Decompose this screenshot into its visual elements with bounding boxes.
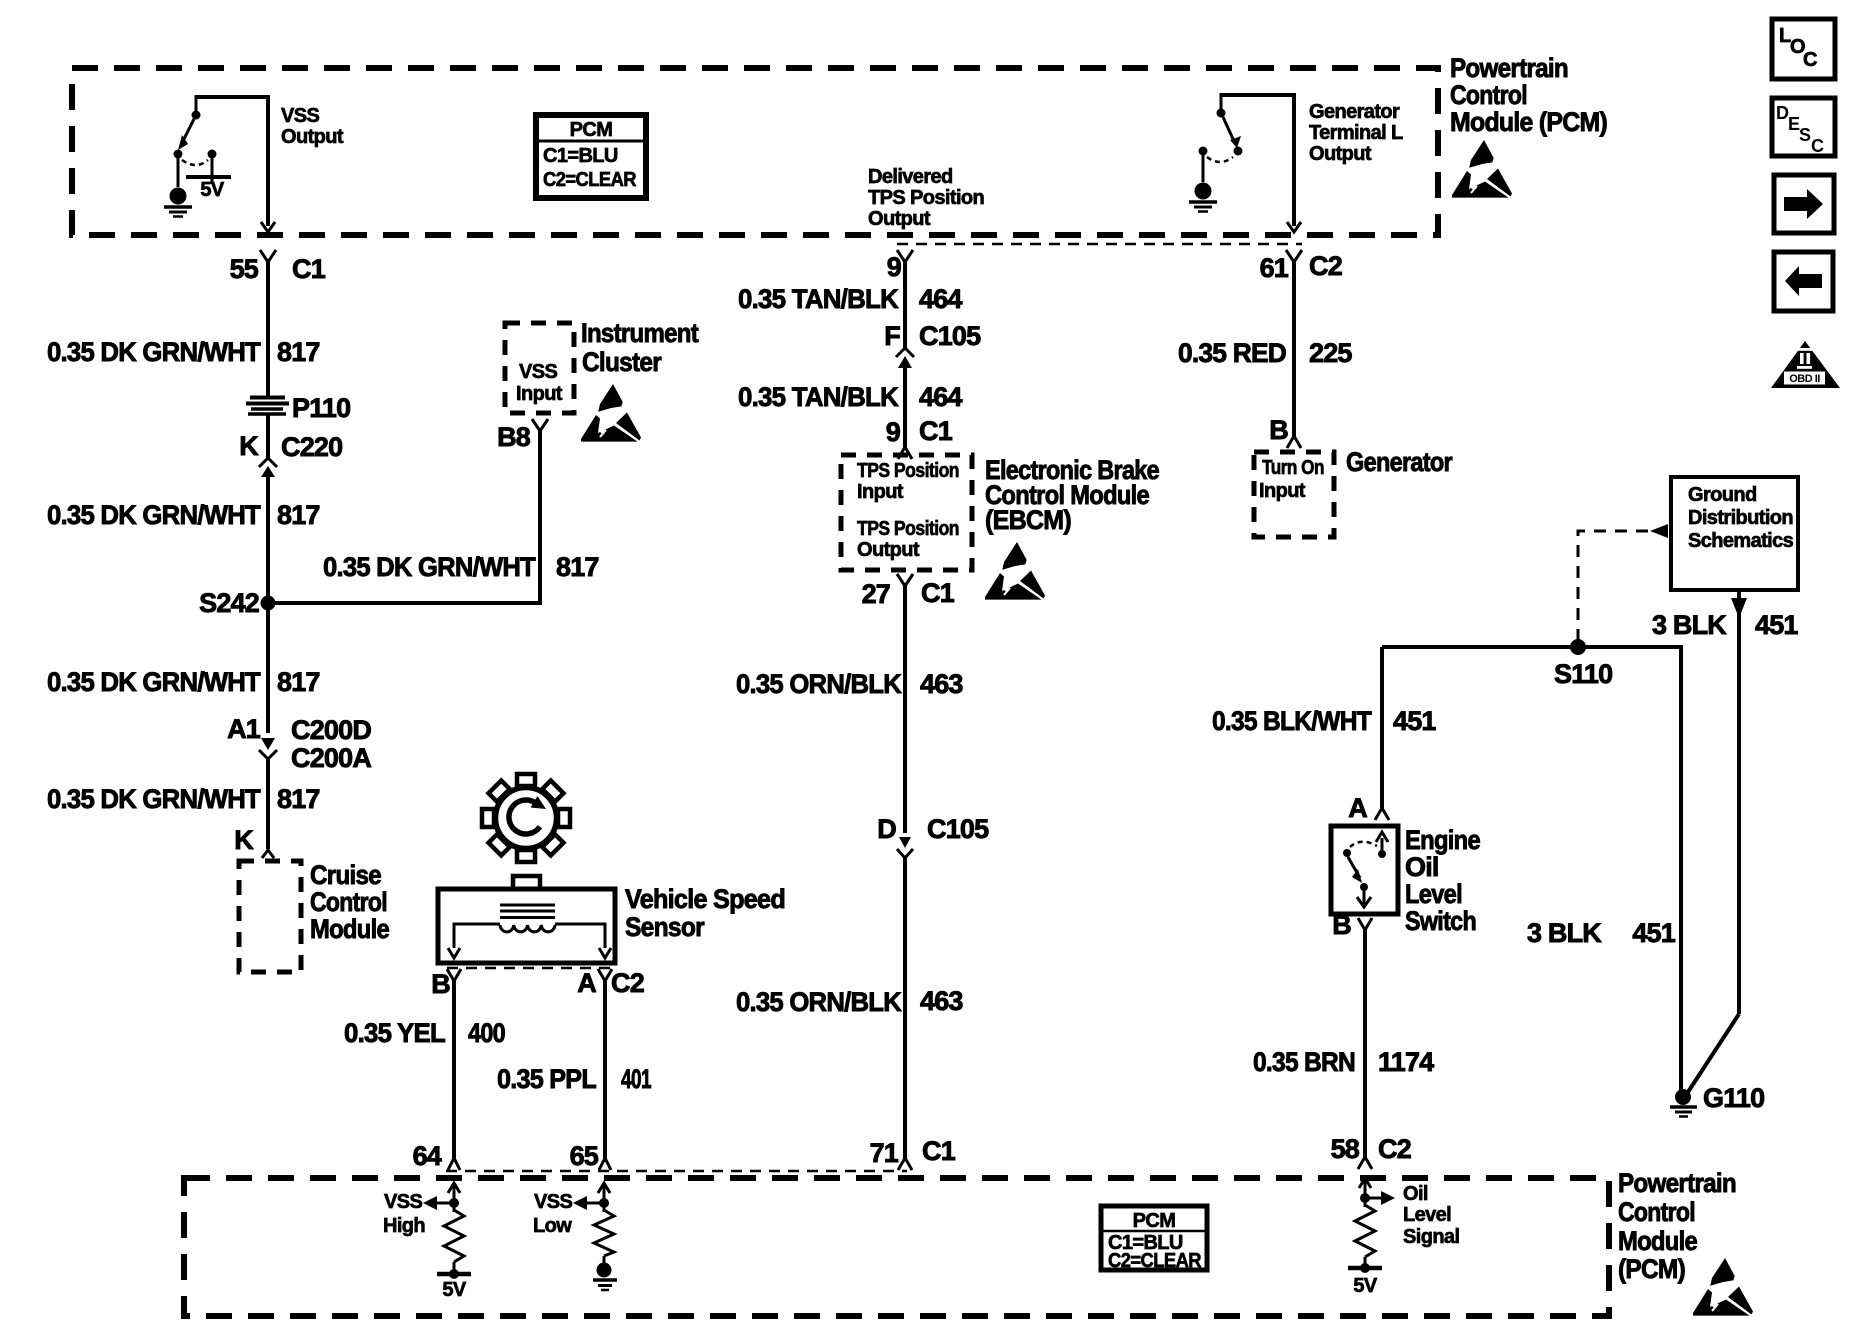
svg-text:817: 817 bbox=[277, 500, 320, 530]
svg-text:Control: Control bbox=[1450, 80, 1527, 110]
svg-text:0.35 ORN/BLK: 0.35 ORN/BLK bbox=[736, 669, 902, 699]
dashed reference line S110 to schematics box bbox=[1578, 524, 1668, 641]
svg-text:C2: C2 bbox=[1378, 1134, 1411, 1164]
VSS reluctor gear icon bbox=[482, 774, 570, 862]
svg-text:A: A bbox=[1348, 793, 1367, 823]
svg-text:Distribution: Distribution bbox=[1688, 507, 1793, 529]
svg-text:F: F bbox=[884, 321, 900, 351]
svg-text:TPS Position: TPS Position bbox=[868, 187, 984, 209]
svg-text:Schematics: Schematics bbox=[1688, 530, 1794, 552]
svg-text:B: B bbox=[431, 969, 450, 999]
svg-text:817: 817 bbox=[277, 667, 320, 697]
svg-text:VSS: VSS bbox=[519, 361, 557, 383]
svg-text:PCM: PCM bbox=[570, 119, 613, 141]
svg-text:Control: Control bbox=[310, 887, 387, 917]
Turn On Input dashed box bbox=[1254, 452, 1334, 537]
svg-text:5V: 5V bbox=[200, 179, 225, 201]
svg-text:Control: Control bbox=[1618, 1197, 1695, 1227]
wire 464 segment 1 bbox=[903, 262, 907, 349]
svg-text:TPS Position: TPS Position bbox=[857, 460, 959, 482]
svg-text:TPS Position: TPS Position bbox=[857, 518, 959, 540]
svg-text:C2: C2 bbox=[611, 968, 644, 998]
label VSS Input bbox=[516, 361, 563, 405]
svg-text:C200A: C200A bbox=[291, 743, 371, 773]
svg-text:C105: C105 bbox=[919, 321, 981, 351]
label 3 BLK 451 (lower) bbox=[1527, 918, 1676, 948]
label VSS Low bbox=[533, 1191, 572, 1237]
svg-text:D: D bbox=[877, 814, 896, 844]
svg-text:61: 61 bbox=[1260, 253, 1289, 283]
connector B8 bbox=[497, 419, 548, 452]
label Instrument Cluster bbox=[581, 318, 699, 377]
label 0.35 RED 225 bbox=[1178, 338, 1352, 368]
connector B (VSS) bbox=[431, 969, 461, 999]
VSS High input: wire, tap, resistor, 5V bbox=[423, 1183, 471, 1301]
label 0.35 DK GRN/WHT 817 (branch) bbox=[323, 552, 599, 582]
label 3 BLK 451 (upper) bbox=[1652, 610, 1798, 640]
in-line connector A1 C200D / C200A bbox=[227, 714, 371, 773]
svg-text:0.35 YEL: 0.35 YEL bbox=[344, 1018, 445, 1048]
connector 27 C1 bbox=[862, 574, 955, 609]
svg-text:VSS: VSS bbox=[384, 1191, 422, 1213]
ESD symbol EBCM bbox=[985, 542, 1045, 600]
svg-text:64: 64 bbox=[413, 1141, 442, 1171]
splice S242 bbox=[199, 588, 275, 618]
svg-text:C2=CLEAR: C2=CLEAR bbox=[1108, 1250, 1202, 1272]
wire 400 bbox=[452, 981, 456, 1158]
svg-text:0.35 DK GRN/WHT: 0.35 DK GRN/WHT bbox=[323, 552, 536, 582]
svg-text:Turn On: Turn On bbox=[1262, 457, 1324, 479]
wire 3 BLK 451 from schematics box bbox=[1731, 590, 1747, 1014]
svg-text:451: 451 bbox=[1632, 918, 1675, 948]
svg-text:5V: 5V bbox=[1353, 1275, 1378, 1297]
pass-through grommet P110 bbox=[246, 393, 350, 423]
svg-text:Input: Input bbox=[857, 481, 904, 503]
Instrument Cluster dashed box bbox=[505, 323, 574, 413]
svg-text:Oil: Oil bbox=[1405, 852, 1439, 882]
PCM connector legend box (bottom) bbox=[1101, 1206, 1207, 1272]
svg-text:464: 464 bbox=[919, 382, 962, 412]
Ground Distribution Schematics box bbox=[1671, 477, 1798, 590]
OBD II icon triangle bbox=[1771, 341, 1840, 388]
svg-text:817: 817 bbox=[277, 337, 320, 367]
svg-text:A1: A1 bbox=[227, 714, 261, 744]
wire 817 segment 2 bbox=[266, 415, 270, 459]
label 0.35 DK GRN/WHT 817 (2) bbox=[47, 500, 320, 530]
wire 401 bbox=[603, 981, 607, 1158]
forward arrow icon box bbox=[1774, 175, 1834, 233]
connector 61 C2 bbox=[1260, 250, 1342, 283]
svg-text:Input: Input bbox=[516, 383, 563, 405]
label 0.35 TAN/BLK 464 (2) bbox=[738, 382, 962, 412]
ESD symbol top right bbox=[1452, 140, 1512, 198]
svg-text:0.35 DK GRN/WHT: 0.35 DK GRN/WHT bbox=[47, 337, 261, 367]
wire 817 segment 1 bbox=[266, 262, 270, 396]
svg-text:Signal: Signal bbox=[1403, 1226, 1459, 1248]
connector B (oil switch) bbox=[1332, 910, 1372, 940]
DESC reference icon box bbox=[1772, 98, 1835, 156]
svg-text:Module: Module bbox=[310, 914, 390, 944]
label Powertrain Control Module (PCM) bottom bbox=[1618, 1168, 1736, 1284]
connector 58 C2 bbox=[1331, 1134, 1411, 1169]
svg-text:0.35 DK GRN/WHT: 0.35 DK GRN/WHT bbox=[47, 500, 261, 530]
svg-text:Terminal L: Terminal L bbox=[1309, 122, 1403, 144]
svg-text:C220: C220 bbox=[281, 432, 342, 462]
svg-text:451: 451 bbox=[1393, 706, 1436, 736]
svg-text:Powertrain: Powertrain bbox=[1450, 53, 1568, 83]
Engine Oil Level Switch box bbox=[1331, 826, 1398, 914]
Cruise Control Module dashed box bbox=[239, 861, 301, 972]
ESD symbol bottom right bbox=[1693, 1258, 1753, 1316]
splice S110 bbox=[1554, 639, 1612, 689]
in-line connector D C105 bbox=[877, 814, 989, 858]
svg-text:K: K bbox=[239, 431, 259, 461]
back arrow icon box bbox=[1774, 252, 1833, 311]
svg-text:0.35 RED: 0.35 RED bbox=[1178, 338, 1286, 368]
svg-text:Generator: Generator bbox=[1309, 101, 1400, 123]
wire VSS output inside PCM bbox=[261, 222, 275, 232]
svg-text:C1: C1 bbox=[292, 254, 326, 284]
svg-text:Cruise: Cruise bbox=[310, 860, 382, 890]
label 0.35 BRN 1174 bbox=[1253, 1047, 1434, 1077]
connector B (generator) bbox=[1269, 415, 1301, 448]
svg-text:C1=BLU: C1=BLU bbox=[543, 145, 618, 167]
svg-text:Sensor: Sensor bbox=[625, 912, 705, 942]
PCM connector legend box (top) bbox=[536, 115, 646, 198]
svg-text:S: S bbox=[1799, 125, 1811, 145]
label 0.35 PPL 401 bbox=[497, 1064, 652, 1094]
svg-text:65: 65 bbox=[570, 1141, 599, 1171]
svg-text:C: C bbox=[1811, 136, 1824, 156]
svg-text:Generator: Generator bbox=[1346, 447, 1453, 477]
label 0.35 DK GRN/WHT 817 (4) bbox=[47, 784, 320, 814]
svg-text:3 BLK: 3 BLK bbox=[1652, 610, 1727, 640]
svg-text:401: 401 bbox=[621, 1064, 652, 1094]
wire 817 segment 5 bbox=[266, 757, 270, 849]
label Cruise Control Module bbox=[310, 860, 390, 944]
thin dashed connector line C1 bottom bbox=[446, 1170, 907, 1173]
svg-text:P110: P110 bbox=[292, 393, 350, 423]
wire 1174 bbox=[1363, 930, 1367, 1157]
label Generator Terminal L Output bbox=[1309, 101, 1403, 165]
connector 71 C1 bbox=[870, 1136, 956, 1170]
svg-text:Ground: Ground bbox=[1688, 484, 1757, 506]
label 0.35 ORN/BLK 463 (2) bbox=[736, 986, 963, 1017]
svg-text:0.35 TAN/BLK: 0.35 TAN/BLK bbox=[738, 382, 899, 412]
svg-text:C2: C2 bbox=[1309, 251, 1342, 281]
connector A (oil switch) bbox=[1348, 793, 1389, 823]
label 0.35 BLK/WHT 451 bbox=[1212, 706, 1436, 736]
svg-text:OBD II: OBD II bbox=[1789, 373, 1820, 385]
svg-text:55: 55 bbox=[230, 254, 259, 284]
svg-text:(EBCM): (EBCM) bbox=[985, 505, 1071, 535]
label Turn On Input bbox=[1259, 457, 1324, 502]
svg-text:0.35 DK GRN/WHT: 0.35 DK GRN/WHT bbox=[47, 667, 261, 697]
svg-text:817: 817 bbox=[556, 552, 599, 582]
label 0.35 TAN/BLK 464 (1) bbox=[738, 284, 962, 314]
label Electronic Brake Control Module (EBCM) bbox=[985, 455, 1160, 535]
svg-text:Powertrain: Powertrain bbox=[1618, 1168, 1736, 1198]
svg-text:C: C bbox=[1803, 49, 1817, 71]
VSS transformer core and coil bbox=[448, 905, 611, 958]
label Delivered TPS Position Output bbox=[868, 166, 984, 230]
ground G110 bbox=[1670, 1083, 1764, 1117]
thin dashed connector line C1/C2 top bbox=[897, 243, 1302, 246]
LOC reference icon box bbox=[1772, 19, 1835, 79]
labels TPS Position Input / Output bbox=[857, 460, 959, 561]
ground symbol (under switch) bbox=[164, 158, 192, 217]
Oil Level Signal input: wire, tap, resistor, 5V bbox=[1348, 1178, 1395, 1297]
svg-text:225: 225 bbox=[1309, 338, 1352, 368]
connector 9 C1 (EBCM) bbox=[886, 416, 953, 459]
svg-text:C1: C1 bbox=[919, 416, 953, 446]
VSS Low input: wire, tap, resistor, ground bbox=[573, 1183, 617, 1290]
svg-text:Delivered: Delivered bbox=[868, 166, 953, 188]
EBCM dashed box bbox=[841, 455, 972, 570]
svg-text:463: 463 bbox=[920, 986, 963, 1016]
wire 463 segment 2 bbox=[903, 857, 907, 1158]
connector 55 C1 bbox=[230, 250, 326, 284]
svg-text:400: 400 bbox=[468, 1018, 505, 1048]
svg-text:0.35 DK GRN/WHT: 0.35 DK GRN/WHT bbox=[47, 784, 261, 814]
svg-text:Module (PCM): Module (PCM) bbox=[1450, 107, 1607, 137]
svg-text:B8: B8 bbox=[497, 422, 531, 452]
label 0.35 YEL 400 bbox=[344, 1018, 505, 1048]
svg-text:(PCM): (PCM) bbox=[1618, 1254, 1685, 1284]
svg-text:C200D: C200D bbox=[291, 715, 371, 745]
svg-text:S242: S242 bbox=[199, 588, 259, 618]
svg-text:9: 9 bbox=[886, 417, 901, 447]
wire 463 segment 1 bbox=[903, 586, 907, 833]
wire 225 bbox=[1292, 262, 1296, 436]
ESD symbol instrument cluster bbox=[581, 384, 641, 442]
label VSS Output bbox=[281, 105, 344, 148]
Vehicle Speed Sensor box bbox=[438, 876, 615, 963]
svg-text:58: 58 bbox=[1331, 1134, 1360, 1164]
label 0.35 DK GRN/WHT 817 (3) bbox=[47, 667, 320, 697]
svg-text:0.35 PPL: 0.35 PPL bbox=[497, 1064, 596, 1094]
wire branch to instrument cluster bbox=[268, 431, 540, 603]
svg-text:High: High bbox=[383, 1215, 425, 1237]
svg-text:Oil: Oil bbox=[1403, 1183, 1428, 1205]
label 0.35 ORN/BLK 463 (1) bbox=[736, 669, 963, 699]
switch S (VSS output driver) in PCM top left bbox=[174, 95, 269, 226]
svg-text:0.35 BLK/WHT: 0.35 BLK/WHT bbox=[1212, 706, 1372, 736]
svg-text:71: 71 bbox=[870, 1138, 899, 1168]
svg-text:463: 463 bbox=[920, 669, 963, 699]
svg-text:Low: Low bbox=[533, 1215, 572, 1237]
svg-text:Engine: Engine bbox=[1405, 825, 1481, 855]
svg-text:VSS: VSS bbox=[534, 1191, 572, 1213]
wire Generator Terminal L output inside PCM bbox=[1287, 222, 1301, 232]
label Powertrain Control Module (PCM) top bbox=[1450, 53, 1607, 137]
wire S110 to G110 bbox=[1382, 647, 1681, 1091]
svg-text:3 BLK: 3 BLK bbox=[1527, 918, 1602, 948]
svg-text:VSS: VSS bbox=[281, 105, 319, 127]
thin dashed connector line C2 (VSS) bbox=[447, 967, 612, 970]
svg-text:0.35 TAN/BLK: 0.35 TAN/BLK bbox=[738, 284, 899, 314]
svg-text:Input: Input bbox=[1259, 480, 1306, 502]
svg-text:464: 464 bbox=[919, 284, 962, 314]
svg-text:C105: C105 bbox=[927, 814, 989, 844]
in-line connector F C105 bbox=[884, 321, 981, 368]
label Oil Level Signal bbox=[1403, 1183, 1459, 1248]
wire diagonal to G110 bbox=[1688, 1014, 1739, 1092]
connector K at cruise control bbox=[234, 825, 274, 858]
wire 817 segment 4 bbox=[266, 610, 270, 733]
svg-text:Instrument: Instrument bbox=[581, 318, 699, 348]
svg-text:Output: Output bbox=[281, 126, 344, 148]
svg-text:Output: Output bbox=[1309, 143, 1372, 165]
ground symbol (under generator switch) bbox=[1189, 155, 1217, 212]
svg-text:0.35 BRN: 0.35 BRN bbox=[1253, 1047, 1355, 1077]
label 0.35 DK GRN/WHT 817 (1) bbox=[47, 337, 320, 367]
wire 464 segment 2 bbox=[903, 365, 907, 447]
svg-text:1174: 1174 bbox=[1378, 1047, 1434, 1077]
svg-text:C2=CLEAR: C2=CLEAR bbox=[543, 169, 637, 191]
label Engine Oil Level Switch bbox=[1405, 825, 1481, 936]
in-line connector K C220 bbox=[239, 431, 342, 477]
svg-text:9: 9 bbox=[887, 252, 902, 282]
oil level switch internals bbox=[1343, 832, 1388, 907]
switch (Generator Terminal L driver) top right bbox=[1199, 93, 1295, 226]
PCM top module dashed box bbox=[72, 68, 1438, 235]
svg-text:Level: Level bbox=[1403, 1204, 1451, 1226]
svg-text:Cluster: Cluster bbox=[582, 347, 662, 377]
svg-text:A: A bbox=[577, 968, 596, 998]
PCM bottom module dashed box bbox=[184, 1178, 1609, 1316]
label VSS High bbox=[383, 1191, 425, 1237]
svg-text:B: B bbox=[1269, 415, 1288, 445]
svg-text:K: K bbox=[234, 825, 254, 855]
connector 64 bbox=[413, 1141, 460, 1171]
connector A C2 (VSS) bbox=[577, 968, 644, 998]
wire 451 to oil level switch bbox=[1380, 647, 1384, 808]
wire 817 segment 3 bbox=[266, 474, 270, 598]
svg-text:Module: Module bbox=[1618, 1226, 1698, 1256]
svg-text:Output: Output bbox=[868, 208, 931, 230]
5V supply symbol (top left) bbox=[186, 158, 231, 201]
svg-text:PCM: PCM bbox=[1133, 1210, 1176, 1232]
label Vehicle Speed Sensor bbox=[625, 884, 785, 942]
svg-text:B: B bbox=[1332, 910, 1351, 940]
svg-text:27: 27 bbox=[862, 579, 890, 609]
svg-text:S110: S110 bbox=[1554, 659, 1612, 689]
svg-text:817: 817 bbox=[277, 784, 320, 814]
svg-text:G110: G110 bbox=[1703, 1083, 1764, 1113]
svg-text:Vehicle Speed: Vehicle Speed bbox=[625, 884, 785, 914]
svg-text:5V: 5V bbox=[442, 1279, 467, 1301]
svg-text:Switch: Switch bbox=[1405, 906, 1476, 936]
svg-text:Level: Level bbox=[1405, 879, 1462, 909]
svg-text:Output: Output bbox=[857, 539, 920, 561]
svg-text:C1: C1 bbox=[922, 1136, 956, 1166]
svg-text:C1: C1 bbox=[921, 578, 955, 608]
svg-text:0.35 ORN/BLK: 0.35 ORN/BLK bbox=[736, 987, 902, 1017]
connector 9 (PCM) bbox=[887, 250, 913, 282]
svg-text:451: 451 bbox=[1755, 610, 1798, 640]
connector 65 bbox=[570, 1141, 611, 1171]
